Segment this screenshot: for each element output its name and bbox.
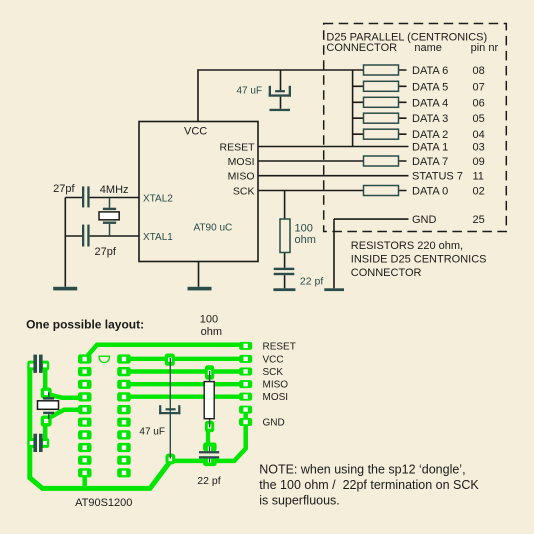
svg-text:MISO: MISO: [228, 171, 255, 183]
svg-text:AT90S1200: AT90S1200: [75, 497, 132, 509]
svg-text:AT90 uC: AT90 uC: [194, 223, 233, 234]
svg-text:XTAL2: XTAL2: [143, 194, 173, 205]
svg-text:CONNECTOR: CONNECTOR: [326, 42, 397, 54]
svg-text:GND: GND: [263, 418, 285, 429]
svg-text:DATA 1: DATA 1: [412, 142, 448, 154]
svg-text:06: 06: [473, 97, 485, 109]
svg-text:RESET: RESET: [219, 141, 255, 153]
svg-text:22 pf: 22 pf: [197, 475, 220, 487]
svg-text:VCC: VCC: [263, 354, 284, 365]
svg-text:02: 02: [473, 186, 485, 198]
svg-text:DATA 3: DATA 3: [412, 113, 448, 125]
svg-text:47 uF: 47 uF: [237, 86, 263, 97]
svg-text:SCK: SCK: [263, 367, 284, 378]
svg-text:CONNECTOR: CONNECTOR: [351, 267, 422, 279]
svg-text:DATA 4: DATA 4: [412, 97, 448, 109]
svg-text:04: 04: [473, 129, 485, 141]
svg-text:27pf: 27pf: [53, 183, 75, 195]
svg-text:08: 08: [473, 65, 485, 77]
svg-text:09: 09: [473, 156, 485, 168]
svg-text:100: 100: [295, 222, 313, 234]
svg-text:pin nr: pin nr: [471, 42, 499, 54]
svg-text:DATA 5: DATA 5: [412, 81, 448, 93]
svg-text:RESET: RESET: [263, 341, 296, 352]
svg-text:One possible layout:: One possible layout:: [26, 318, 144, 332]
svg-text:MOSI: MOSI: [228, 156, 255, 168]
svg-text:MOSI: MOSI: [263, 392, 289, 403]
svg-text:is superfluous.: is superfluous.: [259, 494, 340, 508]
svg-text:name: name: [414, 42, 442, 54]
svg-text:ohm: ohm: [201, 326, 222, 338]
svg-text:05: 05: [473, 113, 485, 125]
svg-text:03: 03: [473, 142, 485, 154]
svg-text:XTAL1: XTAL1: [143, 232, 173, 243]
svg-text:47 uF: 47 uF: [139, 426, 165, 437]
svg-text:ohm: ohm: [295, 234, 316, 246]
svg-text:RESISTORS 220 ohm,: RESISTORS 220 ohm,: [351, 240, 463, 252]
svg-text:DATA 0: DATA 0: [412, 186, 448, 198]
svg-text:27pf: 27pf: [95, 246, 117, 258]
svg-text:DATA 6: DATA 6: [412, 65, 448, 77]
svg-text:MISO: MISO: [263, 380, 289, 391]
svg-text:22 pf: 22 pf: [300, 276, 323, 288]
svg-text:4MHz: 4MHz: [100, 184, 129, 196]
svg-text:SCK: SCK: [233, 185, 255, 197]
svg-text:DATA 7: DATA 7: [412, 156, 448, 168]
svg-text:25: 25: [473, 214, 485, 226]
svg-text:NOTE: when using the sp12 ‘don: NOTE: when using the sp12 ‘dongle’,: [259, 462, 465, 476]
svg-text:STATUS 7: STATUS 7: [412, 171, 463, 183]
svg-text:DATA 2: DATA 2: [412, 129, 448, 141]
svg-text:GND: GND: [412, 214, 437, 226]
svg-text:the 100 ohm / 22pf terminatio: the 100 ohm / 22pf termination on SCK: [259, 478, 479, 492]
svg-text:11: 11: [473, 171, 484, 183]
svg-text:VCC: VCC: [184, 126, 207, 138]
svg-text:100: 100: [200, 313, 218, 325]
svg-text:INSIDE D25 CENTRONICS: INSIDE D25 CENTRONICS: [351, 253, 487, 265]
svg-text:07: 07: [473, 81, 485, 93]
